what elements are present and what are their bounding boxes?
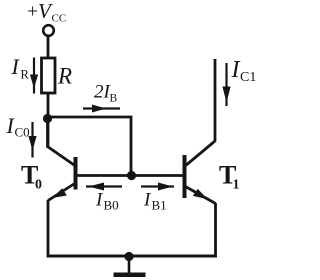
svg-text:1: 1: [233, 178, 240, 193]
svg-text:+: +: [26, 2, 39, 23]
svg-text:I: I: [11, 54, 21, 79]
wire T1 collector up: [214, 59, 217, 142]
svg-text:B0: B0: [104, 198, 119, 213]
node A junction below resistor: [43, 114, 52, 123]
label T0: [21, 161, 42, 193]
svg-text:C1: C1: [240, 70, 256, 85]
wire base rail: [76, 174, 184, 177]
svg-text:R: R: [57, 64, 72, 89]
svg-text:I: I: [231, 57, 241, 83]
current arrow IR: [30, 58, 38, 94]
wire T0 emitter to ground rail: [47, 200, 50, 257]
label +Vcc: [26, 0, 66, 25]
svg-text:B: B: [110, 93, 118, 105]
transistor T1: [185, 141, 216, 204]
svg-text:CC: CC: [52, 13, 67, 25]
svg-text:B1: B1: [152, 198, 167, 213]
label IC0: [6, 113, 30, 140]
wire ground rail: [47, 255, 217, 258]
svg-text:C0: C0: [15, 125, 30, 140]
label IB1: [143, 190, 167, 213]
wire T1 emitter to ground rail: [214, 203, 217, 257]
label 2IB: [94, 82, 118, 105]
label IC1: [231, 57, 257, 85]
current arrow IC0: [28, 122, 36, 158]
svg-text:R: R: [21, 68, 30, 82]
label IB0: [95, 190, 119, 213]
label T1: [219, 161, 240, 193]
current arrow 2IB: [83, 105, 120, 113]
current arrow IC1: [222, 63, 230, 106]
wire node A to base junction (2IB path): [48, 117, 132, 176]
label IR: [11, 54, 30, 82]
resistor R: [42, 58, 56, 93]
wire Vcc terminal to resistor: [47, 36, 50, 59]
wire resistor to node A: [47, 93, 50, 147]
power terminal +Vcc: [43, 25, 54, 36]
node C ground junction: [124, 252, 133, 261]
svg-text:0: 0: [35, 178, 42, 193]
current arrow IB0: [86, 183, 122, 191]
node B base rail junction: [127, 171, 136, 180]
current arrow IB1: [141, 183, 174, 191]
transistor T0: [48, 119, 76, 201]
ground: [114, 257, 146, 275]
